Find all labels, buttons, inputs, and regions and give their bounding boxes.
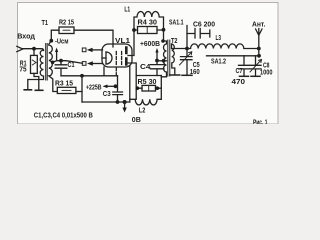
wire tube pin to R5 rail	[128, 63, 136, 76]
capacitor C7	[239, 56, 250, 76]
transformer T2 secondary winding	[172, 44, 175, 75]
svg-text:160: 160	[190, 67, 200, 76]
arrowhead 0V	[122, 108, 126, 113]
svg-text:R3 15: R3 15	[55, 78, 74, 87]
svg-text:С6 200: С6 200	[193, 20, 215, 29]
svg-text:VL1: VL1	[115, 36, 131, 45]
capacitor C6	[187, 29, 210, 39]
tube heater wire	[102, 57, 106, 59]
svg-text:470: 470	[232, 77, 246, 86]
inductor L2	[130, 99, 162, 105]
tube VL1 envelope	[102, 44, 132, 67]
wire T1 tap to grid square	[53, 61, 83, 64]
node T2 primary bottom	[162, 59, 166, 63]
node C5 top	[185, 47, 189, 51]
ground bar T1 primary	[24, 89, 31, 91]
tube anode bar	[125, 48, 128, 65]
transformer T1 secondary winding	[49, 41, 58, 92]
svg-text:С3: С3	[103, 89, 111, 98]
arrow C5 variable	[180, 52, 192, 65]
tube cathode arc	[106, 52, 112, 64]
svg-text:+600В: +600В	[140, 39, 160, 48]
ground bar C5	[182, 74, 192, 76]
node L3 antenna	[257, 47, 261, 51]
wire SA1.2	[207, 55, 260, 57]
svg-text:С1,С3,С4 0,01х500 В: С1,С3,С4 0,01х500 В	[34, 110, 93, 119]
wire C4 to L2 right rail	[160, 76, 162, 100]
node C4 top	[155, 59, 159, 63]
svg-text:С7: С7	[236, 66, 243, 75]
node T2 top	[161, 39, 165, 43]
svg-text:-Uсм: -Uсм	[55, 37, 69, 46]
svg-text:Рис. 1: Рис. 1	[253, 117, 268, 124]
svg-text:L2: L2	[139, 106, 146, 115]
wire anode up to L1R4	[128, 30, 134, 55]
svg-text:Ант.: Ант.	[252, 20, 266, 29]
resistor R3	[57, 87, 76, 93]
ground bar C7	[240, 75, 249, 77]
paper background	[18, 3, 279, 125]
svg-text:L1: L1	[124, 5, 130, 14]
ground bar C8	[251, 75, 260, 77]
arrow C8 variable	[250, 60, 262, 73]
node C1 top	[59, 59, 63, 63]
resistor R3 leads	[76, 91, 82, 93]
arrow inside R1	[32, 60, 36, 65]
pin square lower	[82, 62, 86, 66]
tube screen grid dashed	[121, 52, 123, 65]
wire tube bottom to 0V bus	[129, 66, 131, 102]
svg-text:75: 75	[19, 64, 27, 73]
svg-text:+225В: +225В	[86, 83, 102, 92]
arrowhead bias adjust	[55, 48, 58, 53]
transformer T1 primary winding	[28, 50, 44, 89]
capacitor C5 variable	[181, 49, 193, 75]
ground bar T2	[170, 74, 180, 76]
pin square upper	[82, 48, 86, 52]
node SA1.2 antenna	[257, 54, 261, 58]
node input junction	[32, 47, 36, 51]
pin arrowhead lower	[87, 61, 93, 65]
node R5 right	[156, 86, 160, 90]
ground bar R1	[35, 89, 43, 91]
arrow +600V shaft	[156, 51, 158, 61]
wire SA1.1 vertical	[186, 26, 188, 49]
wire C4 node to T2 primary	[157, 60, 167, 62]
tube cathode line	[105, 52, 107, 64]
capacitor C8 variable	[250, 56, 261, 76]
inductor L3	[187, 44, 259, 49]
transformer T2 primary winding	[161, 41, 166, 77]
wire x82 vertical	[81, 76, 83, 102]
wire cathode return bus y75	[61, 75, 118, 77]
svg-text:С1: С1	[68, 60, 76, 69]
node L1R4 right	[162, 28, 166, 32]
wire junction to R1	[33, 49, 35, 56]
input connector	[17, 46, 23, 51]
bottom bus wire	[82, 101, 130, 103]
svg-text:L3: L3	[216, 33, 222, 42]
svg-text:SA1.1: SA1.1	[169, 17, 184, 26]
pin arrowhead upper	[87, 48, 93, 52]
capacitor C4	[151, 61, 165, 76]
wire T2 to L3	[172, 44, 188, 49]
capacitor C3	[113, 76, 123, 102]
svg-text:R2 15: R2 15	[59, 17, 75, 26]
arrowhead +600V	[155, 48, 158, 53]
svg-text:R5 30: R5 30	[138, 77, 157, 86]
node L1R4 left	[132, 28, 136, 32]
svg-text:T1: T1	[42, 18, 49, 27]
wire heater pin down to bus	[103, 67, 105, 76]
node -Ucm	[49, 39, 53, 43]
wire R2 to grid top cap	[74, 30, 113, 47]
resistor R4	[138, 27, 158, 34]
transformer T1 core	[46, 44, 48, 81]
wire L1R4 right to T2	[163, 30, 165, 41]
arrowhead +225V	[103, 85, 108, 89]
pin arrow upper	[93, 49, 103, 51]
arrow +225V	[107, 85, 115, 87]
wire R2 left lead down to -Ucm node	[51, 30, 59, 41]
pin arrow lower	[93, 63, 103, 65]
svg-text:С4: С4	[140, 62, 151, 71]
resistor R5 leads	[136, 76, 161, 100]
transformer T2 core	[168, 40, 170, 76]
resistor R2	[59, 27, 74, 34]
svg-text:Вход: Вход	[17, 32, 35, 41]
node R5 left	[136, 86, 140, 90]
svg-text:SA1.2: SA1.2	[211, 57, 226, 66]
resistor R5	[142, 85, 156, 91]
wire input to T1	[23, 49, 44, 51]
tube control grid dashed	[115, 52, 117, 76]
node x82	[80, 74, 84, 78]
node 0V	[123, 100, 127, 104]
arrow bias adjust	[56, 50, 58, 61]
inductor L1	[134, 12, 163, 31]
antenna symbol	[256, 29, 262, 56]
wire R1 to ground bar	[34, 73, 39, 89]
capacitor C1	[55, 61, 67, 76]
arrow 0V shaft	[124, 102, 126, 109]
svg-text:0В: 0В	[132, 115, 141, 124]
svg-text:1000: 1000	[260, 67, 273, 76]
svg-text:R4 30: R4 30	[138, 18, 158, 27]
resistor R1	[31, 55, 38, 73]
resistor R4 leads	[134, 29, 164, 31]
